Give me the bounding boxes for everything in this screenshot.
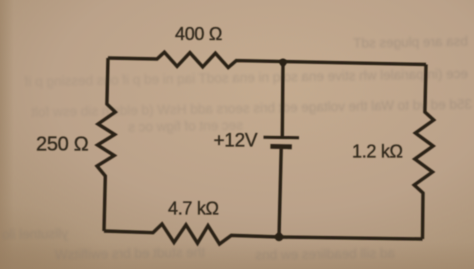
- svg-text:1.2 kΩ: 1.2 kΩ: [352, 142, 403, 162]
- svg-text:4.7 kΩ: 4.7 kΩ: [168, 199, 219, 219]
- svg-text:+12V: +12V: [214, 130, 258, 151]
- svg-text:yllsutnel ilo: yllsutnel ilo: [2, 226, 68, 242]
- svg-text:250 Ω: 250 Ω: [36, 134, 89, 156]
- svg-text:400 Ω: 400 Ω: [175, 24, 222, 44]
- svg-text:ad sill beadlires ew bns: ad sill beadlires ew bns: [255, 246, 395, 263]
- svg-text:the studt ed brs ewiflitsW: the studt ed brs ewiflitsW: [54, 245, 205, 263]
- svg-text:bsa are pluges sdT: bsa are pluges sdT: [353, 34, 468, 51]
